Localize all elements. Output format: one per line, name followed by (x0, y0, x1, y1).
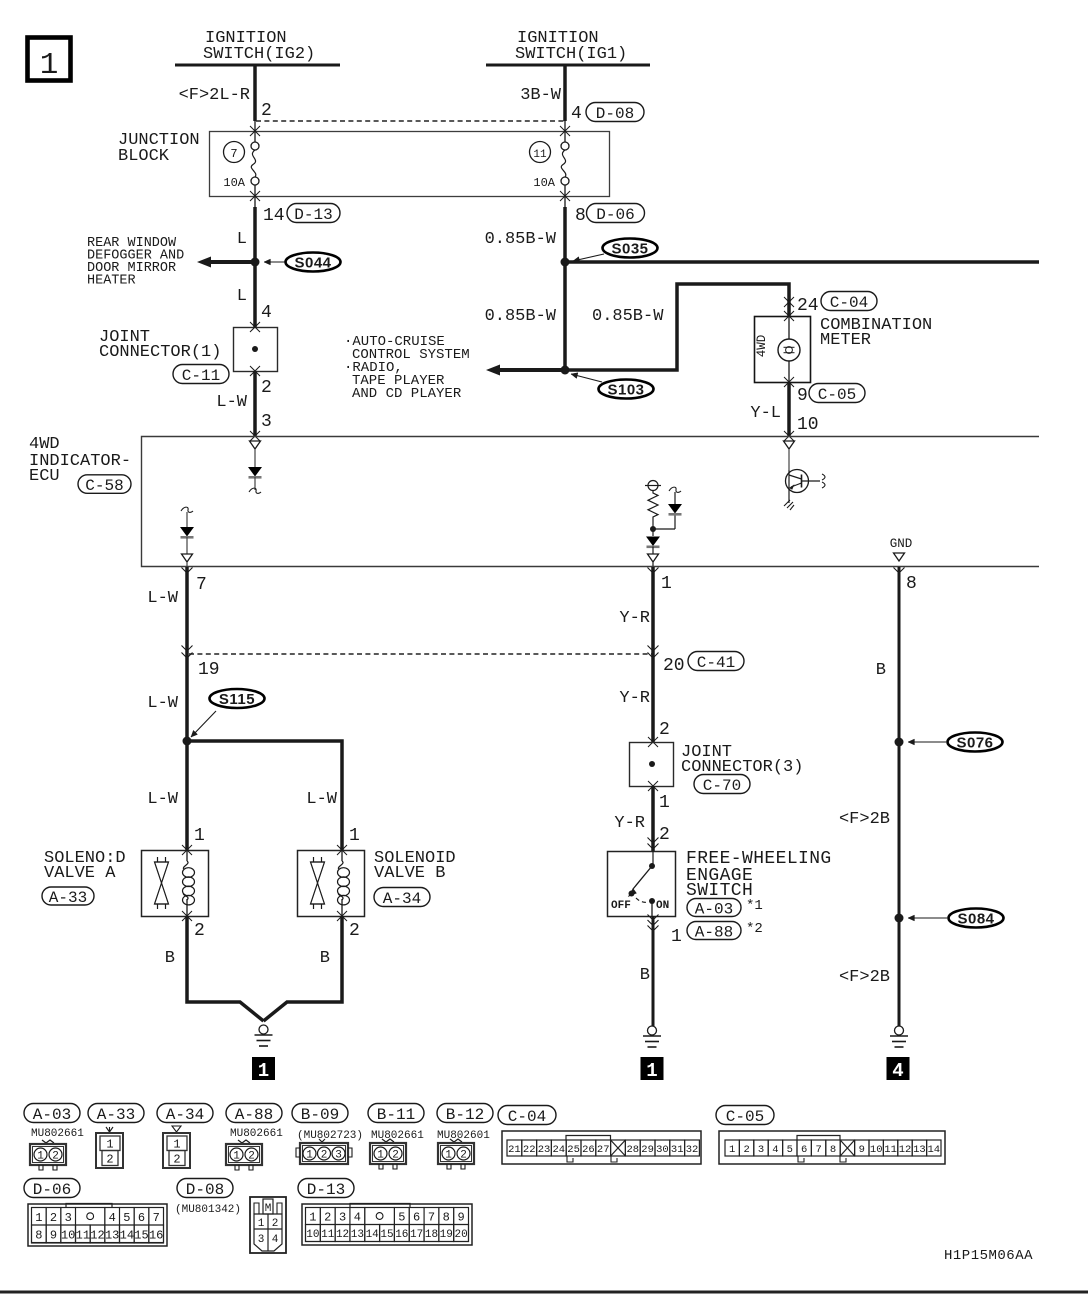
wire IG2 drop (253, 66, 257, 121)
solenoid valve A symbol (157, 857, 159, 862)
node S115 (183, 737, 192, 746)
ground ref box 4 (887, 1057, 910, 1080)
svg-text:MU802661: MU802661 (371, 1130, 424, 1142)
connector ref A-88 bottom (226, 1104, 282, 1123)
svg-text:MU802661: MU802661 (230, 1128, 283, 1140)
svg-text:(MU801342): (MU801342) (175, 1204, 241, 1216)
svg-text:2: 2 (106, 1153, 113, 1167)
svg-text:2: 2 (173, 1153, 180, 1167)
svg-text:1: 1 (37, 1151, 44, 1163)
ECU internal resistor network at pin 1 (648, 481, 658, 491)
svg-text:Y-R: Y-R (614, 814, 645, 833)
svg-text:A-34: A-34 (166, 1106, 204, 1124)
svg-text:1: 1 (40, 48, 59, 83)
connector icon A-34 (172, 1126, 181, 1132)
svg-text:14: 14 (263, 206, 285, 226)
svg-text:7: 7 (428, 1211, 435, 1225)
svg-text:Y-R: Y-R (619, 689, 650, 708)
connector ref C-11 (173, 365, 229, 384)
svg-text:1: 1 (306, 1150, 313, 1162)
gnd triangle (894, 553, 905, 561)
svg-text:4: 4 (892, 1060, 903, 1082)
connector icon B-12 (450, 1139, 462, 1142)
junction block box (210, 132, 610, 197)
svg-text:1: 1 (258, 1218, 265, 1230)
svg-text:<F>2B: <F>2B (839, 810, 890, 829)
svg-text:1: 1 (671, 927, 682, 947)
svg-text:8: 8 (830, 1144, 836, 1156)
node S084 (895, 914, 904, 923)
connector ref B-09 bottom (292, 1104, 348, 1123)
svg-text:9: 9 (859, 1144, 865, 1156)
svg-text:H1P15M06AA: H1P15M06AA (944, 1248, 1033, 1264)
svg-text:5: 5 (398, 1211, 405, 1225)
4WD indicator bulb (788, 316, 790, 339)
svg-text:1: 1 (349, 826, 360, 846)
svg-text:L-W: L-W (147, 694, 178, 713)
svg-text:ECU: ECU (29, 467, 60, 486)
svg-text:1: 1 (173, 1138, 180, 1152)
connector C-04 pin grid (502, 1131, 701, 1164)
connector C-05 pin grid (719, 1131, 945, 1164)
ECU pin 1 (648, 568, 659, 574)
svg-text:0.85B-W: 0.85B-W (485, 307, 557, 326)
svg-text:A-34: A-34 (383, 890, 421, 908)
svg-text:30: 30 (656, 1144, 669, 1156)
svg-text:4: 4 (772, 1144, 778, 1156)
svg-text:*1: *1 (746, 898, 763, 914)
wire 0.85B-W from junction block to S035 (563, 207, 567, 262)
svg-text:10: 10 (306, 1229, 319, 1241)
connector ref B-12 bottom (437, 1104, 493, 1123)
svg-text:D-13: D-13 (307, 1181, 345, 1199)
node S076 (895, 738, 904, 747)
svg-text:10A: 10A (223, 176, 245, 190)
svg-text:9: 9 (50, 1228, 57, 1242)
svg-text:SWITCH(IG1): SWITCH(IG1) (515, 45, 627, 64)
svg-text:4WD: 4WD (755, 335, 769, 358)
svg-text:2: 2 (460, 1150, 467, 1162)
svg-text:4: 4 (571, 104, 582, 124)
connector ref C-70 (694, 775, 750, 794)
switch internals (652, 851, 654, 866)
ECU pin 8 (894, 568, 905, 574)
svg-text:SWITCH(IG2): SWITCH(IG2) (203, 45, 315, 64)
svg-text:3: 3 (339, 1211, 346, 1225)
svg-text:S044: S044 (294, 255, 331, 272)
svg-text:9: 9 (457, 1211, 464, 1225)
svg-text:8: 8 (443, 1211, 450, 1225)
svg-text:11: 11 (321, 1229, 335, 1241)
svg-text:<F>2B: <F>2B (839, 968, 890, 987)
svg-text:2: 2 (261, 101, 272, 121)
solenoid valve B coil (341, 850, 343, 861)
svg-text:C-05: C-05 (818, 386, 856, 404)
svg-text:11: 11 (884, 1144, 897, 1156)
svg-text:HEATER: HEATER (87, 274, 136, 289)
svg-text:C-70: C-70 (703, 777, 741, 795)
svg-text:12: 12 (899, 1144, 912, 1156)
svg-text:MU802601: MU802601 (437, 1130, 490, 1142)
svg-text:19: 19 (198, 660, 220, 680)
svg-text:1: 1 (194, 826, 205, 846)
solenoid valve A coil (186, 850, 188, 861)
svg-text:AND CD PLAYER: AND CD PLAYER (352, 386, 462, 402)
svg-text:4: 4 (109, 1211, 116, 1225)
svg-text:7: 7 (153, 1211, 160, 1225)
svg-text:2: 2 (194, 921, 205, 941)
svg-text:METER: METER (820, 331, 871, 350)
svg-text:12: 12 (336, 1229, 349, 1241)
wire 0.85B-W from S035 to S103 (563, 262, 567, 370)
node S044 (251, 258, 260, 267)
node S035 (561, 258, 570, 267)
svg-text:A-33: A-33 (97, 1106, 135, 1124)
svg-text:5: 5 (123, 1211, 130, 1225)
svg-text:BLOCK: BLOCK (118, 147, 170, 166)
fuse 7 10A (251, 142, 259, 150)
connector ref D-13 bottom (298, 1179, 354, 1198)
svg-text:C-05: C-05 (726, 1108, 764, 1126)
svg-text:2: 2 (392, 1150, 399, 1162)
svg-text:3: 3 (335, 1150, 342, 1162)
connector ref A-33 (42, 887, 94, 905)
wire B from ECU pin 8 (898, 567, 901, 1026)
pin 2 solenoid A (182, 911, 192, 921)
wire from S103 to combination meter pin 24 (565, 284, 789, 370)
joint connector 1 box (234, 328, 278, 372)
ground ref box 1 (252, 1057, 275, 1080)
bus wire from S035 to right edge (565, 260, 1039, 264)
wire L from junction block to S044 (253, 207, 257, 262)
svg-text:0.85B-W: 0.85B-W (592, 307, 664, 326)
connector ref A-34 (374, 888, 430, 907)
svg-text:13: 13 (913, 1144, 926, 1156)
svg-text:1: 1 (309, 1211, 316, 1225)
svg-text:6: 6 (413, 1211, 420, 1225)
svg-text:2: 2 (743, 1144, 749, 1156)
arrow to rear window defogger (207, 260, 255, 264)
solenoid valve A box (142, 851, 209, 917)
connector ref C-04 bottom (498, 1106, 556, 1125)
4WD indicator ECU box (142, 437, 1040, 567)
svg-text:S115: S115 (219, 691, 255, 708)
svg-text:2: 2 (659, 720, 670, 740)
svg-text:8: 8 (906, 574, 917, 594)
svg-text:15: 15 (380, 1229, 393, 1241)
wire IG1 drop (563, 66, 567, 121)
svg-text:C-04: C-04 (830, 294, 868, 312)
svg-text:16: 16 (395, 1229, 408, 1241)
wire B from solenoid A to ground (187, 916, 264, 1021)
svg-text:6: 6 (801, 1144, 807, 1156)
svg-text:2: 2 (272, 1218, 279, 1230)
splice code S084 (949, 909, 1004, 928)
svg-text:10A: 10A (533, 176, 555, 190)
svg-text:C-58: C-58 (85, 477, 123, 495)
svg-text:2: 2 (52, 1151, 59, 1163)
svg-text:C-04: C-04 (508, 1108, 546, 1126)
svg-text:D-08: D-08 (596, 105, 634, 123)
wire Y-L to ECU pin 10 (787, 382, 791, 436)
splice code S115 (210, 689, 265, 708)
svg-text:*2: *2 (746, 921, 763, 937)
ECU internal diode at pin 7 (181, 507, 193, 512)
svg-text:29: 29 (641, 1144, 654, 1156)
ECU internal diode at pin 3 (250, 441, 261, 449)
svg-text:4: 4 (354, 1211, 361, 1225)
svg-text:14: 14 (120, 1228, 134, 1242)
connector icon A-33 (106, 1127, 113, 1132)
svg-text:2: 2 (261, 378, 272, 398)
svg-text:D-06: D-06 (596, 206, 634, 224)
wire L-W to ECU pin 3 (253, 371, 257, 436)
svg-text:3: 3 (258, 1234, 265, 1246)
svg-text:(MU802723): (MU802723) (297, 1130, 363, 1142)
svg-text:B-12: B-12 (446, 1106, 484, 1124)
pin 1 switch (648, 915, 659, 921)
svg-text:14: 14 (927, 1144, 940, 1156)
connector ref A-03 bottom (24, 1104, 80, 1123)
svg-text:25: 25 (567, 1144, 580, 1156)
svg-text:L-W: L-W (147, 589, 178, 608)
svg-text:Y-L: Y-L (750, 404, 781, 423)
svg-text:L-W: L-W (216, 393, 247, 412)
ECU internal lower diode at pin 1 (652, 529, 654, 536)
svg-text:2: 2 (659, 825, 670, 845)
wire L from S044 to joint connector 1 (253, 262, 257, 327)
svg-text:B: B (640, 966, 650, 985)
svg-text:L-W: L-W (147, 790, 178, 809)
svg-text:C-11: C-11 (182, 367, 220, 385)
wire through junction block IG1 (564, 121, 566, 142)
fuse 11 circled number (530, 142, 551, 163)
svg-text:1: 1 (646, 1060, 657, 1082)
svg-text:24: 24 (797, 296, 819, 316)
wire L-W from ECU pin 7 (185, 567, 189, 741)
svg-text:18: 18 (425, 1229, 438, 1241)
svg-text:1: 1 (106, 1138, 113, 1152)
svg-text:A-03: A-03 (695, 900, 733, 918)
svg-text:1: 1 (35, 1211, 42, 1225)
connector D-13 pin grid (302, 1204, 472, 1245)
svg-text:1: 1 (377, 1150, 384, 1162)
svg-text:6: 6 (138, 1211, 145, 1225)
ground symbol left (259, 1025, 268, 1034)
wire B from solenoid B to ground (264, 916, 343, 1021)
svg-text:32: 32 (686, 1144, 699, 1156)
svg-text:1: 1 (659, 793, 670, 813)
svg-text:1: 1 (233, 1151, 240, 1163)
svg-text:21: 21 (508, 1144, 521, 1156)
svg-text:VALVE A: VALVE A (44, 864, 116, 883)
svg-text:28: 28 (626, 1144, 639, 1156)
svg-text:2: 2 (50, 1211, 57, 1225)
splice code S035 (603, 239, 658, 258)
svg-text:D-06: D-06 (33, 1181, 71, 1199)
svg-text:13: 13 (351, 1229, 364, 1241)
arrow to auto-cruise radio systems (496, 368, 565, 372)
svg-text:10: 10 (797, 415, 819, 435)
connector ref D-06 bottom (24, 1179, 80, 1198)
svg-text:2: 2 (324, 1211, 331, 1225)
dashed tie line between IG2 and IG1 wires (256, 120, 565, 122)
fuse 7 circled number (224, 142, 245, 163)
dashed separator line lower (189, 653, 653, 655)
svg-text:MU802661: MU802661 (31, 1128, 84, 1140)
svg-text:S076: S076 (956, 735, 993, 752)
connector icon B-09 (319, 1139, 325, 1142)
connector ref C-58 (78, 475, 131, 494)
wire B from switch to ground (652, 916, 655, 1026)
svg-text:23: 23 (538, 1144, 551, 1156)
ground symbol right (895, 1026, 904, 1035)
pin 9 and connector C-05 ref (784, 377, 794, 387)
svg-text:B: B (320, 949, 330, 968)
free-wheeling engage switch box (608, 852, 676, 917)
svg-text:ON: ON (656, 900, 669, 912)
svg-text:4: 4 (272, 1234, 279, 1246)
svg-text:11: 11 (76, 1228, 90, 1242)
svg-text:OFF: OFF (611, 900, 631, 912)
page number box 1 (28, 38, 71, 81)
svg-text:26: 26 (582, 1144, 595, 1156)
joint connector 3 box (630, 743, 674, 787)
svg-text:L-W: L-W (306, 790, 337, 809)
splice code S103 (599, 380, 654, 399)
ECU pin 7 (182, 568, 193, 574)
connector D-08 icon (250, 1197, 286, 1253)
svg-text:7: 7 (196, 575, 207, 595)
wire Y-R to switch (651, 786, 655, 851)
svg-text:13: 13 (105, 1228, 119, 1242)
connector ref B-11 bottom (368, 1104, 424, 1123)
svg-text:CONNECTOR(1): CONNECTOR(1) (99, 343, 221, 362)
splice code S076 (948, 733, 1003, 752)
svg-text:B: B (165, 949, 175, 968)
svg-text:A-88: A-88 (695, 923, 733, 941)
svg-text:L: L (237, 230, 247, 249)
svg-text:3: 3 (65, 1211, 72, 1225)
svg-text:Y-R: Y-R (619, 609, 650, 628)
svg-text:1: 1 (729, 1144, 735, 1156)
svg-text:8: 8 (575, 206, 586, 226)
svg-text:4: 4 (261, 303, 272, 323)
svg-text:5: 5 (787, 1144, 793, 1156)
svg-text:S103: S103 (607, 382, 644, 399)
connector icon A-03 (42, 1140, 54, 1143)
svg-text:A-33: A-33 (49, 889, 87, 907)
svg-text:1: 1 (258, 1060, 269, 1082)
ECU internal transistor at pin 10 (784, 441, 795, 449)
ground symbol middle (648, 1026, 657, 1035)
svg-text:9: 9 (797, 386, 808, 406)
combination meter box (755, 317, 811, 383)
connector ref D-08 bottom (177, 1179, 233, 1198)
svg-text:1: 1 (445, 1150, 452, 1162)
svg-text:12: 12 (90, 1228, 104, 1242)
svg-text:L: L (237, 287, 247, 306)
solenoid valve B symbol (313, 857, 315, 862)
svg-text:11: 11 (533, 149, 547, 161)
svg-text:S035: S035 (611, 241, 648, 258)
svg-text:A-03: A-03 (33, 1106, 71, 1124)
svg-text:A-88: A-88 (235, 1106, 273, 1124)
svg-text:S084: S084 (957, 911, 994, 928)
wire through junction block IG2 (254, 121, 256, 142)
svg-text:10: 10 (61, 1228, 75, 1242)
svg-text:2: 2 (349, 921, 360, 941)
node S103 (561, 366, 570, 375)
svg-text:D-13: D-13 (294, 206, 332, 224)
ECU internal diode branch (653, 528, 675, 530)
connector icon B-11 (382, 1139, 394, 1142)
svg-text:17: 17 (410, 1229, 423, 1241)
wire to solenoid valve A (185, 741, 189, 850)
pin 2 solenoid B (337, 911, 347, 921)
svg-text:3B-W: 3B-W (520, 86, 562, 105)
svg-text:7: 7 (815, 1144, 821, 1156)
connector ref A-33 bottom (88, 1104, 144, 1123)
svg-text:GND: GND (890, 537, 913, 551)
connector ref C-05 bottom (716, 1106, 774, 1125)
svg-text:C-41: C-41 (697, 654, 735, 672)
connector ref A-88 (687, 922, 741, 940)
svg-text:0.85B-W: 0.85B-W (485, 230, 557, 249)
connector ref A-34 bottom (157, 1104, 213, 1123)
svg-text:3: 3 (261, 412, 272, 432)
svg-text:16: 16 (149, 1228, 163, 1242)
wire Y-R from ECU pin 1 (651, 567, 655, 742)
svg-text:31: 31 (671, 1144, 684, 1156)
svg-text:VALVE B: VALVE B (374, 864, 445, 883)
svg-text:22: 22 (523, 1144, 536, 1156)
svg-text:2: 2 (248, 1151, 255, 1163)
svg-text:20: 20 (454, 1229, 467, 1241)
svg-text:20: 20 (663, 656, 685, 676)
ground ref box 1 middle (641, 1057, 664, 1080)
connector icon A-88 (238, 1140, 250, 1143)
svg-text:7: 7 (230, 147, 237, 161)
svg-text:<F>2L-R: <F>2L-R (179, 86, 250, 105)
svg-text:27: 27 (597, 1144, 610, 1156)
svg-text:15: 15 (134, 1228, 148, 1242)
svg-text:8: 8 (35, 1228, 42, 1242)
svg-text:B-09: B-09 (301, 1106, 339, 1124)
svg-text:M: M (265, 1203, 272, 1215)
svg-text:3: 3 (758, 1144, 764, 1156)
connector ref A-03 (687, 899, 741, 917)
svg-text:10: 10 (870, 1144, 883, 1156)
bottom rule (0, 1291, 1088, 1294)
svg-text:B-11: B-11 (377, 1106, 415, 1124)
svg-text:24: 24 (552, 1144, 565, 1156)
splice code S044 (286, 253, 341, 272)
svg-text:B: B (876, 661, 886, 680)
fuse 11 10A (561, 142, 569, 150)
svg-text:D-08: D-08 (186, 1181, 224, 1199)
solenoid valve B box (298, 851, 365, 917)
connector D-06 pin grid (28, 1204, 167, 1246)
svg-text:14: 14 (366, 1229, 380, 1241)
svg-text:1: 1 (661, 574, 672, 594)
branch wire to solenoid valve B (187, 741, 342, 850)
svg-text:19: 19 (440, 1229, 453, 1241)
svg-text:2: 2 (321, 1150, 328, 1162)
